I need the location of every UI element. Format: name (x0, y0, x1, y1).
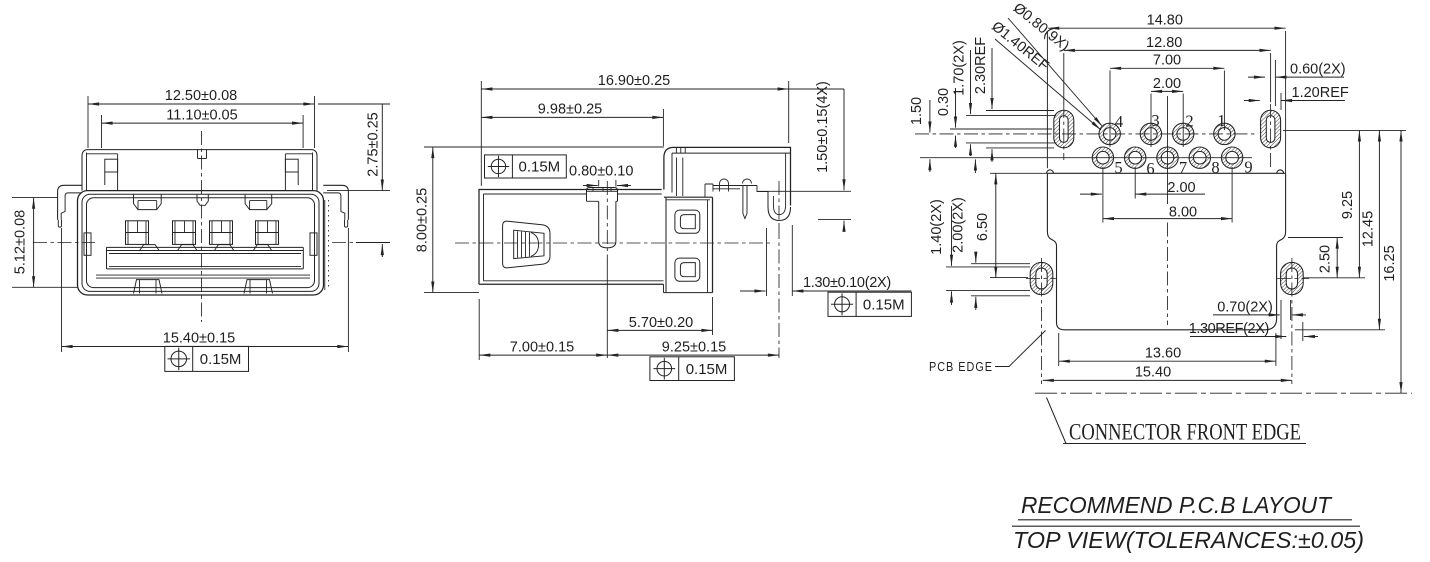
svg-text:5.70±0.20: 5.70±0.20 (629, 315, 693, 331)
front view: horizontal centerline right segment (332, 242, 390, 244)
svg-text:1.30REF(2X): 1.30REF(2X) (1189, 321, 1269, 337)
front view: shell outer wall (78, 191, 324, 295)
pcb layout: connector front edge centerline (1035, 392, 1412, 394)
pcb layout: pin hole 1 (1214, 123, 1235, 144)
pcb layout: pin hole 7 (1157, 147, 1178, 168)
front view: shell inner wall (87, 198, 315, 288)
svg-text:13.60: 13.60 (1145, 345, 1181, 361)
svg-text:12.45: 12.45 (1361, 211, 1377, 247)
svg-text:1.50: 1.50 (909, 97, 925, 125)
svg-text:0.70(2X): 0.70(2X) (1217, 300, 1273, 316)
front view: upper shell right latch detail (312, 153, 314, 191)
svg-text:9.25±0.15: 9.25±0.15 (662, 339, 726, 355)
pcb layout: vertical centerline (1167, 96, 1169, 204)
pcb layout: left extension lines lower (971, 263, 1030, 265)
svg-text:6.50: 6.50 (975, 213, 991, 241)
svg-text:11.10±0.05: 11.10±0.05 (166, 107, 237, 123)
side view: contact pin head 2 (743, 179, 752, 184)
side view: horizontal centerline (455, 242, 770, 244)
pcb layout: dim 13.60 (1059, 360, 1276, 362)
front view: rear shell sliver right (324, 200, 326, 290)
front view: top latch window left (134, 194, 162, 209)
svg-text:6: 6 (1146, 159, 1154, 178)
side view: dim 16.90±0.25 (481, 88, 788, 90)
side view: dim 7.00±0.15 (479, 354, 607, 356)
side view: center pin shaft (598, 201, 600, 241)
svg-text:1.50±0.15(4X): 1.50±0.15(4X) (815, 81, 831, 173)
svg-text:5: 5 (1114, 158, 1122, 177)
side view: datum frame 0.15M lower (650, 357, 735, 381)
side view: rear plate (665, 197, 667, 292)
front view: contact 2 (173, 221, 196, 245)
svg-text:2.00(2X): 2.00(2X) (951, 197, 967, 253)
side view: pin bar (713, 185, 757, 187)
front view: right side latch window (310, 233, 317, 255)
pcb layout: slot hole top-left (1054, 110, 1074, 147)
svg-text:TOP VIEW(TOLERANCES:±0.05): TOP VIEW(TOLERANCES:±0.05) (1013, 527, 1364, 553)
svg-text:16.90±0.25: 16.90±0.25 (598, 73, 670, 89)
svg-text:1.30±0.10(2X): 1.30±0.10(2X) (803, 275, 891, 291)
front view: vertical centerline (201, 131, 203, 322)
side view: bend relief ticks (675, 147, 677, 153)
front view: contact 1 (126, 221, 149, 245)
side view: dim 5.70±0.20 (607, 329, 712, 331)
side view: through pin (742, 186, 744, 214)
svg-text:0.80±0.10: 0.80±0.10 (569, 164, 633, 180)
svg-text:2.00: 2.00 (1167, 180, 1195, 196)
front view: right mounting leg (323, 185, 348, 220)
svg-text:8: 8 (1211, 158, 1219, 177)
svg-text:2.75±0.25: 2.75±0.25 (366, 112, 382, 176)
side view: dim 9.25±0.15 (607, 354, 779, 356)
pcb layout: bottom pin row line (920, 157, 1252, 159)
svg-text:2: 2 (1185, 112, 1193, 131)
side view: latch spring wishbone (503, 221, 550, 268)
side view: solder tail centerline (778, 181, 780, 225)
side view: rear plate D-cutout lower (675, 258, 700, 281)
pcb layout: pin hole 3 (1140, 123, 1161, 144)
side view: center pin collar (587, 188, 618, 202)
svg-text:5.12±0.08: 5.12±0.08 (13, 210, 29, 274)
pcb layout: dim 7.00 (1110, 67, 1224, 69)
svg-text:8.00±0.25: 8.00±0.25 (415, 188, 431, 252)
front view: upper shell center notch (197, 150, 199, 159)
svg-text:0.15M: 0.15M (686, 361, 728, 378)
pcb layout: pin hole 6 (1125, 147, 1146, 168)
pcb layout: slot hole bottom-right (1281, 262, 1304, 294)
pcb layout: slot hole top-right (1261, 110, 1281, 147)
svg-text:12.80: 12.80 (1146, 35, 1182, 51)
pcb layout: dim 14.80 (1048, 27, 1285, 29)
svg-text:15.40: 15.40 (1135, 365, 1171, 381)
svg-text:CONNECTOR FRONT EDGE: CONNECTOR FRONT EDGE (1069, 420, 1301, 445)
svg-text:7.00: 7.00 (1153, 53, 1181, 69)
front view: tongue bump 1 (140, 245, 159, 251)
svg-text:16.25: 16.25 (1382, 245, 1398, 281)
pcb layout: slot hole bottom-left (1030, 262, 1053, 294)
svg-text:0.15M: 0.15M (863, 297, 905, 314)
front view: left mounting leg (58, 185, 82, 220)
front view: tongue top edge (107, 246, 304, 248)
svg-text:12.50±0.08: 12.50±0.08 (165, 88, 237, 104)
side view: rear tall section outline (664, 147, 791, 205)
side view: body outline (479, 190, 662, 285)
pcb layout: pin hole 2 (1173, 123, 1194, 144)
pcb layout: pin hole 9 (1221, 147, 1242, 168)
svg-text:7.00±0.15: 7.00±0.15 (510, 339, 574, 355)
svg-text:2.00: 2.00 (1153, 76, 1181, 92)
svg-text:15.40±0.15: 15.40±0.15 (163, 331, 235, 347)
svg-text:PCB EDGE: PCB EDGE (929, 359, 993, 374)
side view: inner bend wall (676, 158, 678, 197)
front view: dim 15.40±0.15 (62, 346, 349, 348)
svg-text:9.25: 9.25 (1340, 191, 1356, 219)
svg-text:1.70(2X): 1.70(2X) (952, 40, 968, 96)
side view: solder tail (757, 186, 768, 192)
front view: top latch window center (197, 194, 208, 205)
pcb layout: left extension lines upper (986, 110, 1054, 112)
svg-text:2.30REF: 2.30REF (973, 37, 989, 94)
pcb layout: dim 8.00 bottom (1103, 218, 1232, 220)
front view: top latch window right (245, 194, 272, 209)
svg-text:0.60(2X): 0.60(2X) (1290, 62, 1346, 78)
front view: tongue bump 2 (178, 245, 197, 251)
svg-text:2.50: 2.50 (1318, 245, 1334, 273)
svg-text:7: 7 (1179, 158, 1187, 177)
svg-text:1.20REF: 1.20REF (1292, 85, 1349, 101)
front view: contact 3 (210, 221, 233, 245)
front view: contact 4 (256, 221, 279, 245)
svg-text:3: 3 (1151, 111, 1159, 130)
pcb layout: board cutout outline (1046, 31, 1048, 168)
side view: datum frame 0.15M (485, 155, 567, 178)
pcb layout: pin hole 4 (1099, 123, 1120, 144)
front view: horizontal centerline left segment (33, 242, 95, 244)
pcb layout: dim 2.00 bottom (1135, 193, 1205, 195)
side view: contact pin head 1 (720, 179, 729, 184)
pcb layout: pin hole 5 (1092, 147, 1113, 168)
front view: tongue bump 3 (214, 245, 233, 251)
svg-text:0.30: 0.30 (936, 88, 952, 116)
side view: rear plate D-cutout upper (675, 210, 700, 233)
svg-text:4: 4 (1115, 112, 1123, 131)
front view: tongue bump 4 (253, 245, 271, 251)
pcb layout: pin hole 8 (1189, 147, 1210, 168)
pcb layout: dim 15.40 (1043, 379, 1292, 381)
front view: upper shell left latch detail (86, 153, 88, 191)
front view: dim 12.50±0.08 (88, 103, 315, 105)
front view: dim 11.10±0.05 (102, 122, 304, 124)
svg-text:RECOMMEND P.C.B LAYOUT: RECOMMEND P.C.B LAYOUT (1021, 492, 1333, 518)
front view: tongue front face (106, 247, 108, 269)
front view: bottom latch window right (244, 280, 273, 294)
svg-text:8.00: 8.00 (1169, 204, 1197, 220)
svg-text:0.15M: 0.15M (518, 159, 560, 176)
side view: datum frame 0.15M right (828, 292, 911, 316)
svg-text:14.80: 14.80 (1147, 13, 1183, 29)
front view: datum frame 0.15M (165, 346, 249, 371)
pcb layout: dim 2.00 top (1151, 90, 1183, 92)
side view: pin centerline (606, 181, 608, 258)
svg-text:0.15M: 0.15M (200, 351, 242, 368)
front view: upper shell body (82, 150, 317, 191)
side view: step profile (705, 184, 713, 197)
svg-text:9.98±0.25: 9.98±0.25 (538, 102, 602, 118)
front view: bottom latch window left (134, 280, 163, 294)
pcb layout: right extension lines (1283, 129, 1406, 131)
svg-text:1: 1 (1217, 111, 1225, 130)
pcb layout: dim 12.80 (1064, 49, 1271, 51)
svg-text:1.40(2X): 1.40(2X) (929, 199, 945, 255)
front view: shell middle wall (82, 194, 319, 291)
side view: dim 9.98±0.25 (481, 116, 663, 118)
front view: left side latch window (84, 233, 91, 255)
